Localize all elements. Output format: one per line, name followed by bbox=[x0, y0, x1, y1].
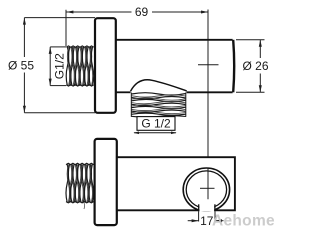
tube Ø26 body bbox=[116, 40, 233, 93]
holder slot opening bbox=[199, 203, 215, 212]
dimension 17 bbox=[188, 212, 224, 223]
centerline vertical axis of holder bbox=[207, 10, 209, 200]
holder cup outer circle bbox=[183, 168, 229, 211]
center dash on tube axis bbox=[198, 64, 219, 66]
flange 2 (bottom escutcheon) bbox=[95, 139, 117, 225]
dimension 69 bbox=[66, 10, 208, 46]
svg-text:G 1/2: G 1/2 bbox=[141, 117, 171, 131]
flange 1 (Ø55 escutcheon, top view) bbox=[95, 18, 116, 113]
center mark inside holder (redraw over white) bbox=[200, 168, 215, 199]
tube end cap bbox=[233, 40, 234, 93]
dimension arrows under G 1/2 box bbox=[133, 132, 176, 135]
center dash tube axis bbox=[198, 64, 219, 66]
holder cup inner circle bbox=[186, 171, 226, 208]
dimension G1/2 (rotated label) bbox=[49, 47, 66, 86]
holder body bbox=[117, 157, 235, 210]
outlet thread dome bbox=[131, 80, 187, 91]
svg-text:Ø 26: Ø 26 bbox=[242, 59, 268, 73]
dimension Ø26 bbox=[236, 40, 265, 93]
svg-text:G1/2: G1/2 bbox=[53, 53, 67, 79]
thread 2 G1/2 (bottom left) bbox=[66, 163, 94, 209]
svg-text:69: 69 bbox=[135, 5, 149, 19]
center dash holder circle bbox=[200, 187, 215, 189]
centerline through tube bbox=[207, 40, 209, 93]
thread 1 G1/2 (top left) bbox=[66, 46, 94, 86]
label box G 1/2 bbox=[137, 117, 175, 131]
svg-text:Aehome: Aehome bbox=[212, 213, 275, 230]
outlet thread G1/2 hatch bbox=[131, 93, 186, 117]
dimension Ø55 bbox=[23, 18, 95, 113]
svg-text:Ø 55: Ø 55 bbox=[8, 58, 34, 72]
